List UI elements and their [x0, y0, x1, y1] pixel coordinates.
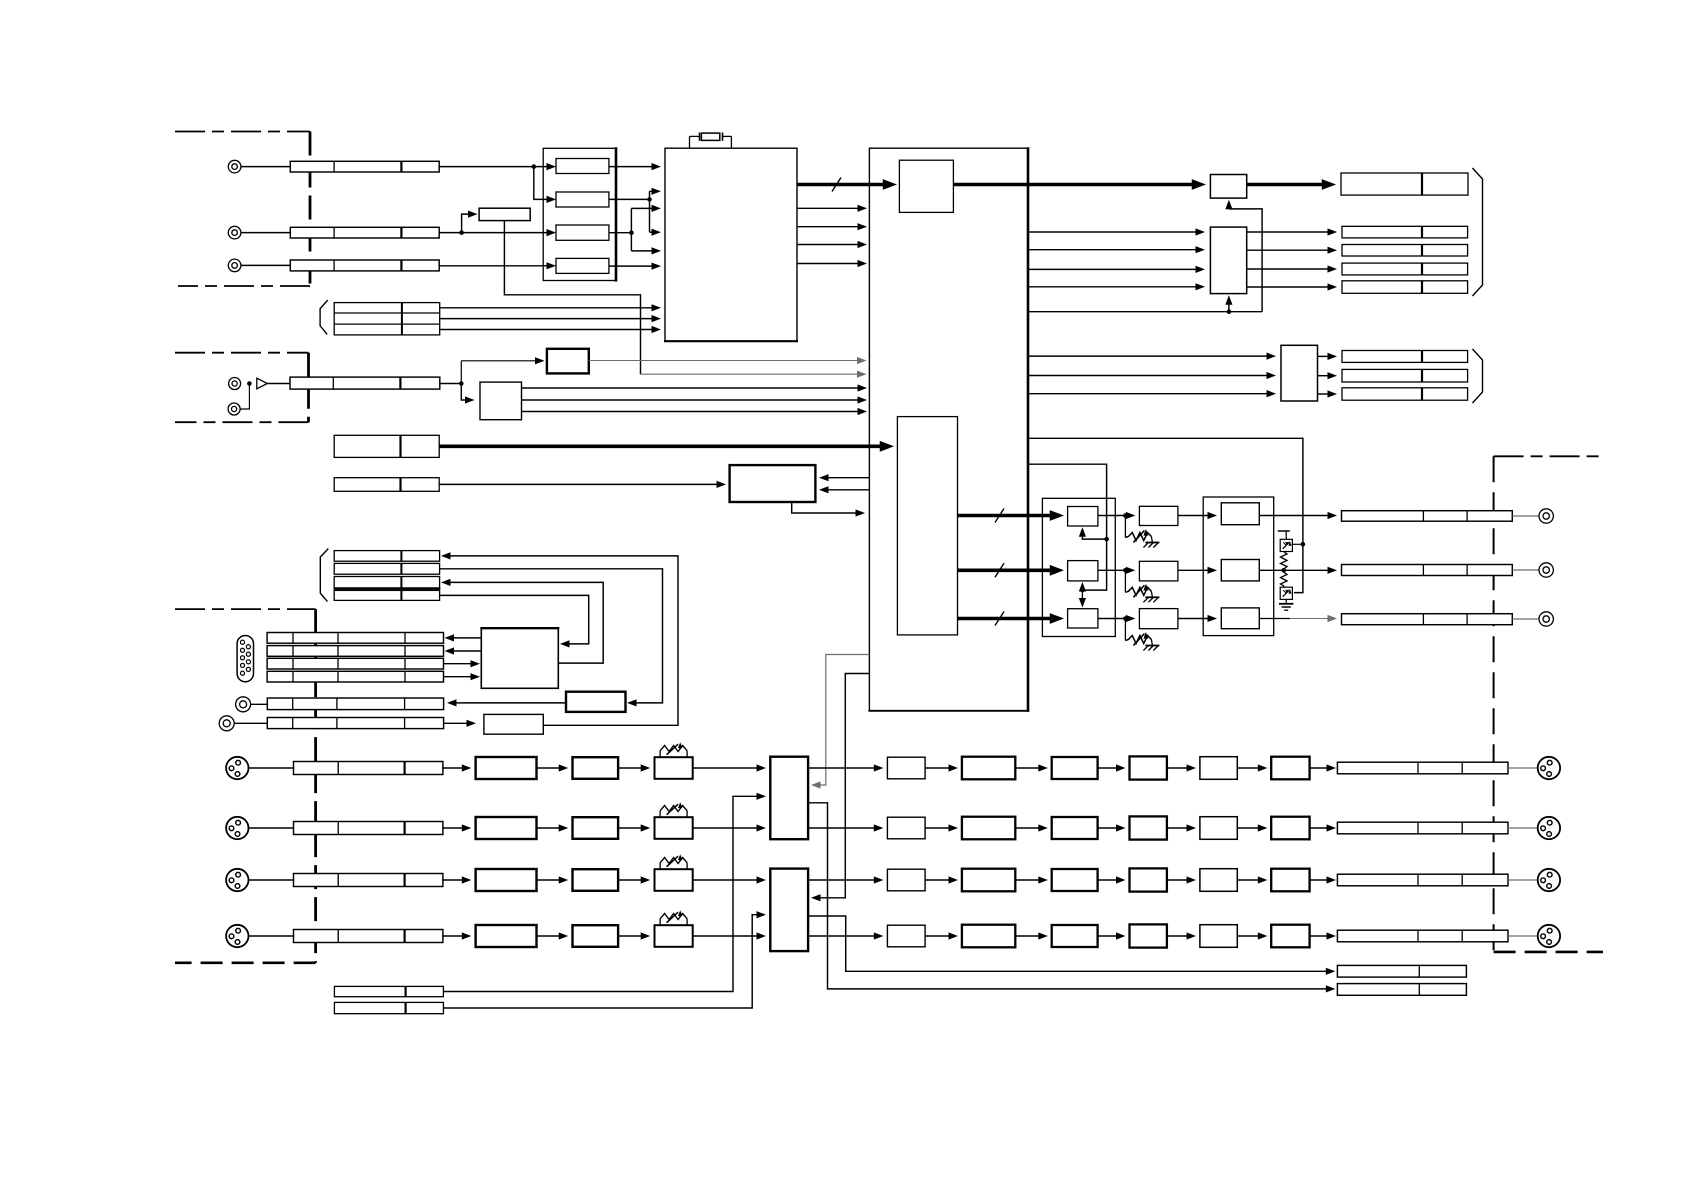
- wire cable to word box: [444, 722, 468, 724]
- relay box (bold): [566, 692, 626, 712]
- wire line2 to line3 (ch D): [1098, 935, 1121, 937]
- input filter box (ch B): [573, 817, 619, 839]
- bus through DSP block: [953, 183, 1196, 187]
- wire row2 branch up to SRC box: [462, 214, 469, 233]
- wire ADC to DAC (ch C): [808, 879, 875, 881]
- line amp 5 (ch B): [1271, 817, 1309, 840]
- monitor bar 1: [334, 986, 443, 996]
- remote bar row 3: [334, 577, 439, 589]
- line amp 4 (ch C): [1200, 869, 1237, 892]
- ADC/mixer block 1: [770, 757, 808, 840]
- wire buffer to cable: [267, 383, 290, 385]
- line amp 3 (ch D): [1130, 924, 1167, 947]
- cable bar remote out: [267, 698, 443, 710]
- line amp 4 (ch B): [1200, 817, 1237, 840]
- post box (ch A): [887, 757, 925, 779]
- wire post to line1 (ch C): [925, 879, 950, 881]
- remote bar row 1: [334, 551, 439, 562]
- filter box C: [1139, 609, 1178, 629]
- unit boundary (top-left analog input section), dash-dot frame: [175, 131, 310, 133]
- wire gain to ADC (ch B): [693, 827, 758, 829]
- supply bar: [1278, 530, 1290, 532]
- wire U1b to DIR (split): [609, 198, 650, 200]
- loop cable bar 2: [1337, 984, 1466, 996]
- right brace (digital outputs): [1473, 168, 1483, 296]
- wire ADC to DAC (ch A): [808, 767, 875, 769]
- line amp 3 (ch A): [1130, 756, 1167, 779]
- wire filter to gain (ch B): [618, 827, 646, 829]
- cable bar out 3: [1342, 263, 1468, 275]
- line amp 4 (ch A): [1200, 757, 1237, 780]
- optocoupler 2: [1280, 587, 1292, 599]
- receiver block group frame: [543, 148, 616, 280]
- cable bar remote in: [267, 718, 443, 729]
- crystal X1 legs: [689, 136, 691, 148]
- wire cable2 to comm box: [439, 483, 717, 485]
- volume pot A with ground: [1124, 516, 1126, 538]
- wire config row2 to DIR: [440, 318, 653, 320]
- wire line2 to line3 (ch C): [1098, 879, 1121, 881]
- buffer amp (triangle): [257, 378, 268, 389]
- DSP output engine block: [897, 417, 957, 635]
- wire XLR to cable (ch B): [249, 827, 294, 829]
- wire opto2 down: [1285, 600, 1287, 604]
- wire S1 out 2: [522, 399, 859, 401]
- headphone connector J4 (RCA): [229, 378, 241, 390]
- amp block B: [1221, 560, 1259, 581]
- cable assembly bar (ch B): [294, 822, 443, 835]
- level detect box (bold): [547, 349, 589, 374]
- ground (earth): [1279, 603, 1293, 605]
- wire up to level box: [460, 361, 462, 384]
- wire formatter B out 3: [1247, 268, 1329, 270]
- wire cable to XLR out (gray, ch D): [1508, 935, 1538, 937]
- gain box (ch D): [655, 925, 693, 947]
- cable bar out 2: [1342, 245, 1468, 257]
- bus control to DSP: [439, 444, 884, 448]
- wire DAC B out: [1098, 569, 1127, 571]
- bus slash mark: [832, 178, 841, 192]
- wire gain to ADC (ch D): [693, 935, 758, 937]
- unit boundary (headphone section), dash-dot frame: [175, 352, 309, 354]
- wire cable to preamp (ch B): [443, 827, 463, 829]
- SRC box: [479, 208, 530, 220]
- preamp box (ch B): [476, 817, 537, 839]
- wire line3 to line4 (ch B): [1167, 827, 1192, 829]
- wire serial row4 (to serial IF): [444, 676, 473, 678]
- wire monitor2 to mixer2: [443, 915, 758, 1008]
- wire line3 to line4 (ch D): [1167, 935, 1192, 937]
- wire relay to cable: [452, 702, 566, 704]
- wire J5 up to buffer: [240, 384, 249, 410]
- gain box (ch C): [655, 869, 693, 891]
- cable bar out 1: [1342, 226, 1468, 238]
- wire serial row1 (from serial IF): [451, 637, 481, 639]
- wire remote row3 (from serial IF): [448, 582, 603, 663]
- output connector (RCA) mono: [1539, 612, 1553, 626]
- preamp box (ch C): [476, 869, 537, 891]
- cable assembly bar (row 1): [290, 161, 439, 172]
- DSP input interface block: [899, 160, 953, 212]
- DAC block C: [1068, 609, 1098, 628]
- wire DSP to comm 2: [828, 489, 870, 491]
- wire aux out 2: [1318, 375, 1329, 377]
- word clock box: [484, 714, 543, 734]
- wire monitor1 to mixer1: [443, 796, 758, 991]
- cable bar DAC mono: [1342, 614, 1513, 625]
- wire formatter B out 2: [1247, 249, 1329, 251]
- amp block C: [1221, 608, 1259, 629]
- line amp 1 (ch A): [962, 757, 1015, 780]
- gain box (ch A): [655, 757, 693, 779]
- DAC group frame: [1042, 498, 1115, 636]
- wire line2 to line3 (ch B): [1098, 827, 1121, 829]
- output cable bar (ch C): [1337, 874, 1508, 886]
- junction: [1080, 588, 1085, 593]
- output connector (RCA) L: [1539, 509, 1553, 523]
- wire S1 out 1: [522, 387, 859, 389]
- output cable bar (ch B): [1337, 822, 1508, 834]
- wire line1 to line2 (ch B): [1015, 827, 1043, 829]
- wire U1a to DIR: [609, 166, 653, 168]
- wire cable to XLR out (gray, ch A): [1508, 767, 1538, 769]
- right brace (aux outputs): [1473, 349, 1483, 403]
- wire DSP to formatter 2: [1028, 249, 1197, 251]
- wire filter A to amp: [1178, 515, 1209, 517]
- wire U1d to DIR: [609, 265, 653, 267]
- line amp 3 (ch C): [1130, 868, 1167, 891]
- volume pot C with ground: [1124, 619, 1126, 641]
- remote in connector: [236, 697, 251, 712]
- remote out connector: [219, 716, 234, 731]
- cable assembly bar (row 3): [290, 260, 439, 271]
- receiver block U1a: [556, 159, 609, 174]
- wire formatter B out 4: [1247, 286, 1329, 288]
- serial bar row 1: [267, 633, 443, 644]
- post box (ch B): [887, 817, 925, 839]
- line amp 1 (ch B): [962, 817, 1015, 840]
- cable assembly bar (row 2): [290, 227, 439, 238]
- input connector J1 (RCA): [228, 160, 241, 173]
- wire line5 to out cable (ch D): [1310, 935, 1328, 937]
- digital interface receiver IC: [665, 148, 797, 341]
- line amp 1 (ch C): [962, 869, 1015, 892]
- D-sub connector (9-pin): [237, 636, 253, 682]
- serial bar row 2: [267, 646, 443, 657]
- cable assembly bar (headphone): [290, 377, 440, 389]
- loop cable bar 1: [1337, 965, 1466, 977]
- XLR output connector (ch A): [1538, 757, 1560, 779]
- receiver block U1d: [556, 258, 609, 273]
- remote bar row 2: [334, 563, 439, 574]
- cable bar DAC L: [1342, 511, 1513, 522]
- line amp 2 (ch C): [1052, 869, 1098, 891]
- control cable bar (bus): [334, 435, 439, 457]
- cable bar aux 3: [1342, 388, 1468, 400]
- input filter box (ch C): [573, 869, 619, 891]
- input filter box (ch A): [573, 757, 619, 779]
- wire DSP to aux 2: [1028, 375, 1268, 377]
- bus formatter to cable: [1247, 183, 1326, 187]
- monitor bar 2: [334, 1002, 443, 1013]
- wire formatter control: [1028, 311, 1262, 313]
- ADC/mixer block 2: [770, 869, 808, 952]
- wire amp C to cable (gray): [1259, 618, 1290, 620]
- wire post to line1 (ch B): [925, 827, 950, 829]
- filter box A: [1139, 506, 1178, 525]
- comm box (bold): [730, 465, 816, 502]
- wire XLR to cable (ch D): [249, 935, 294, 937]
- line amp 5 (ch C): [1271, 869, 1309, 892]
- wire gain to ADC (ch C): [693, 879, 758, 881]
- wire line1 to line2 (ch D): [1015, 935, 1043, 937]
- headphone connector J5 (RCA): [228, 403, 240, 415]
- gain trim pot (ch C): [659, 863, 661, 870]
- serial bar row 3: [267, 658, 443, 669]
- wire preamp to filter (ch C): [537, 879, 565, 881]
- line amp 3 (ch B): [1130, 816, 1167, 839]
- output formatter box A: [1210, 175, 1246, 199]
- junction: [1104, 537, 1109, 542]
- wire DSP to comm 1: [828, 477, 870, 479]
- wire connector to cable: [251, 703, 268, 705]
- control link B-C (double arrow): [1081, 585, 1083, 604]
- wire preamp to filter (ch D): [537, 935, 565, 937]
- wire line4 to line5 (ch B): [1237, 827, 1263, 829]
- gain box (ch B): [655, 817, 693, 839]
- post box (ch D): [887, 925, 925, 947]
- DAC block B: [1068, 561, 1098, 581]
- gain trim pot (ch B): [659, 811, 661, 818]
- wire serial row2 (from serial IF): [451, 650, 481, 652]
- XLR input connector (ch C): [226, 869, 248, 891]
- wire filter to gain (ch C): [618, 879, 646, 881]
- wire aux out 1: [1318, 355, 1329, 357]
- XLR input connector (ch A): [226, 757, 248, 779]
- post box (ch C): [887, 869, 925, 891]
- wire to RCA out L (gray): [1512, 515, 1539, 517]
- wire control branch to DAC A: [1082, 532, 1106, 539]
- wire line4 to line5 (ch D): [1237, 935, 1263, 937]
- line amp 2 (ch B): [1052, 817, 1098, 839]
- cable bar aux 2: [1342, 369, 1468, 382]
- line amp 2 (ch A): [1052, 757, 1098, 779]
- wire line1 to line2 (ch A): [1015, 767, 1043, 769]
- bus DSP to DAC3: [958, 617, 1055, 621]
- wire mixer1 loop out: [808, 803, 1327, 989]
- wire DSP to mixer1 (return, gray): [815, 655, 869, 786]
- wire line4 to line5 (ch C): [1237, 879, 1263, 881]
- wire DAC A out: [1098, 515, 1127, 517]
- cable bar DAC R: [1342, 565, 1513, 576]
- cable assembly bar (ch C): [294, 874, 443, 887]
- wire preamp to filter (ch A): [537, 767, 565, 769]
- serial interface box: [481, 628, 558, 688]
- wire line1 to line2 (ch C): [1015, 879, 1043, 881]
- wire aux out 3: [1318, 393, 1329, 395]
- wire cable to preamp (ch C): [443, 879, 463, 881]
- DAC block A: [1068, 507, 1098, 527]
- wire config row3 to DIR: [440, 329, 653, 331]
- wire row2 to receiver: [439, 232, 547, 234]
- wire line3 to line4 (ch C): [1167, 879, 1192, 881]
- aux output box: [1281, 345, 1318, 401]
- DSP main IC: [869, 148, 1028, 711]
- wire opto1 to feedback: [1292, 543, 1303, 545]
- wire J3 to cable: [241, 264, 290, 266]
- volume pot B with ground: [1124, 570, 1126, 592]
- bus DIR to DSP (serial audio): [797, 183, 887, 187]
- crystal X1: [701, 133, 719, 140]
- wire filter to gain (ch D): [618, 935, 646, 937]
- line amp 5 (ch D): [1271, 925, 1309, 948]
- wire filter C to amp: [1178, 618, 1209, 620]
- wire row1 branch to receiver 2: [534, 167, 548, 200]
- wire DIR out 4: [797, 263, 859, 265]
- left brace (remote bus): [320, 549, 328, 602]
- wire DIR out 1: [797, 207, 859, 209]
- unit boundary (bottom-left connector panel), dash-dot frame: [175, 608, 316, 610]
- wire XLR to cable (ch C): [249, 879, 294, 881]
- amp group frame: [1203, 497, 1274, 636]
- wire cable to XLR out (gray, ch B): [1508, 827, 1538, 829]
- wire ADC to DAC (ch B): [808, 827, 875, 829]
- wire mixer2 loop out: [808, 916, 1327, 971]
- receiver block U1b: [556, 192, 609, 207]
- wire line4 to line5 (ch A): [1237, 767, 1263, 769]
- wire line2 to line3 (ch A): [1098, 767, 1121, 769]
- wire amp B to cable: [1259, 569, 1328, 571]
- preamp box (ch A): [476, 757, 537, 779]
- wire line5 to out cable (ch C): [1310, 879, 1328, 881]
- wire row3 to receiver: [439, 265, 547, 267]
- wire SRC control to DSP (gray): [641, 373, 860, 375]
- cable assembly bar (ch D): [294, 930, 443, 943]
- wire to RCA out R (gray): [1512, 569, 1539, 571]
- receiver block U1c: [556, 225, 609, 240]
- wire SRC down and right (control): [504, 221, 640, 375]
- cable bar aux 1: [1342, 351, 1468, 363]
- D-sub pins: [240, 640, 244, 644]
- cable assembly bar (ch A): [294, 762, 443, 775]
- serial bar row 4: [267, 671, 443, 682]
- filter box B: [1139, 561, 1178, 581]
- line amp 1 (ch D): [962, 925, 1015, 948]
- wire down to sel box: [461, 384, 466, 401]
- wire filter B to amp: [1178, 569, 1209, 571]
- wire preamp to filter (ch B): [537, 827, 565, 829]
- unit boundary (right output panel), dash-dot frame: [1494, 455, 1605, 457]
- wire DIR out 2: [797, 226, 859, 228]
- XLR output connector (ch C): [1538, 869, 1560, 891]
- wire DSP to aux 1: [1028, 355, 1268, 357]
- gain trim pot (ch A): [659, 751, 661, 758]
- wire serial row3 (to serial IF): [444, 663, 473, 665]
- wire DSP to aux 3: [1028, 393, 1268, 395]
- wire cable to XLR out (gray, ch C): [1508, 879, 1538, 881]
- wire DSP to mixer2 (return): [815, 674, 869, 898]
- wire cable to preamp (ch A): [443, 767, 463, 769]
- XLR input connector (ch D): [226, 925, 248, 947]
- wire line3 to line4 (ch A): [1167, 767, 1192, 769]
- wire DAC C out: [1098, 618, 1127, 620]
- left brace (config bus): [320, 300, 328, 334]
- wire DSP feedback to opto net: [1028, 438, 1303, 592]
- selector box S1: [480, 382, 522, 420]
- wire DSP control to DAC group: [1028, 464, 1107, 590]
- input connector J3 (RCA): [228, 259, 241, 272]
- wire amp A to cable: [1259, 515, 1328, 517]
- output cable bar (ch A): [1337, 762, 1508, 774]
- wire to RCA out mono (gray): [1512, 618, 1539, 620]
- control cable bar 2: [334, 478, 439, 492]
- input connector J2 (RCA): [228, 226, 241, 239]
- output formatter box B: [1210, 227, 1246, 294]
- bus DSP to DAC1: [958, 514, 1055, 518]
- line amp 4 (ch D): [1200, 925, 1237, 948]
- wire post to line1 (ch A): [925, 767, 950, 769]
- input filter box (ch D): [573, 925, 619, 947]
- wire remote row2 (to relay box): [440, 569, 663, 703]
- wire DSP to formatter 4: [1028, 286, 1197, 288]
- junction: [247, 381, 252, 386]
- wire XLR to cable (ch A): [249, 767, 294, 769]
- wire remote row4 (to serial IF): [440, 595, 589, 644]
- preamp box (ch D): [476, 925, 537, 947]
- output connector (RCA) R: [1539, 563, 1553, 577]
- wire gain to ADC (ch A): [693, 767, 758, 769]
- cable bar out 4: [1342, 281, 1468, 294]
- XLR output connector (ch B): [1538, 817, 1560, 839]
- config bar group (3 rows): [334, 303, 440, 335]
- XLR input connector (ch B): [226, 817, 248, 839]
- wire line5 to out cable (ch A): [1310, 767, 1328, 769]
- wire config row1 to DIR: [440, 307, 653, 309]
- wire filter to gain (ch A): [618, 767, 646, 769]
- wire connector to cable 2: [234, 722, 267, 724]
- wire DSP to formatter 3: [1028, 268, 1197, 270]
- wire DSP to formatter 1: [1028, 231, 1197, 233]
- wire cable to preamp (ch D): [443, 935, 463, 937]
- output cable bar (ch D): [1337, 930, 1508, 942]
- wire U1c to DIR (split): [609, 232, 632, 234]
- wire DIR out 3: [797, 244, 859, 246]
- wire formatter B out 1: [1247, 231, 1329, 233]
- line amp 5 (ch A): [1271, 757, 1309, 780]
- amp block A: [1221, 503, 1259, 525]
- wire S1 out 3: [522, 411, 859, 413]
- wire post to line1 (ch D): [925, 935, 950, 937]
- wire ADC to DAC (ch D): [808, 935, 875, 937]
- resistor R1 (zigzag): [1281, 552, 1288, 570]
- XLR output connector (ch D): [1538, 925, 1560, 947]
- wire row1 to receiver: [439, 166, 547, 168]
- wire headphone net: [440, 383, 462, 385]
- cable bar (digital out): [1341, 173, 1468, 195]
- wire J1 to cable: [241, 166, 290, 168]
- optocoupler 1: [1280, 539, 1292, 551]
- resistor R2 (zigzag): [1281, 570, 1288, 587]
- wire line5 to out cable (ch B): [1310, 827, 1328, 829]
- gain trim pot (ch D): [659, 919, 661, 926]
- wire level box to DSP (gray): [589, 360, 860, 362]
- wire J2 to cable: [241, 232, 290, 234]
- wire comm to DSP: [792, 502, 857, 513]
- wire remote row1 (from relay box): [448, 556, 678, 725]
- line amp 2 (ch D): [1052, 925, 1098, 947]
- bus DSP to DAC2: [958, 568, 1055, 572]
- remote bar row 4: [334, 590, 439, 600]
